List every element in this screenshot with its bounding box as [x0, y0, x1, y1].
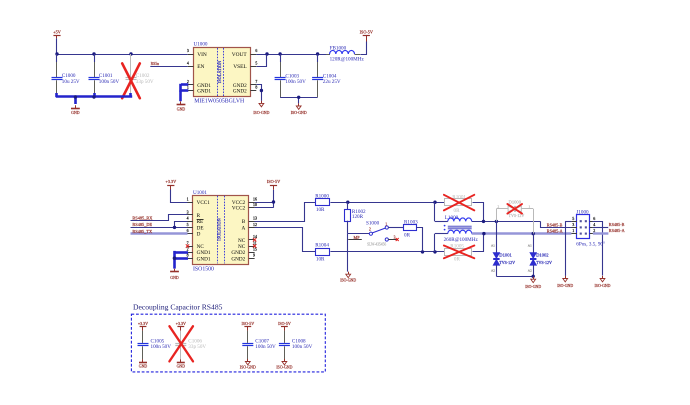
wire RS485_DE [131, 222, 188, 230]
diode D1000 TVS not fitted [496, 199, 533, 233]
U1001 pin 2 stub [187, 248, 193, 253]
svg-text:SLW-435456: SLW-435456 [367, 242, 386, 246]
svg-text:RS5n: RS5n [151, 62, 160, 66]
no-connect X U1001 pin 11 [253, 244, 256, 247]
red X over C1006 [169, 326, 193, 361]
svg-text:0R: 0R [454, 208, 461, 214]
wire RS485_TX highlighted [131, 229, 188, 234]
svg-text:NC: NC [238, 238, 246, 244]
wire U1001 GND1 thick to ground [173, 251, 188, 269]
svg-text:ISO-GND: ISO-GND [240, 365, 256, 369]
svg-text:S1000: S1000 [366, 220, 380, 226]
svg-text:120R@100MHz: 120R@100MHz [330, 57, 365, 63]
svg-text:ISO-GND: ISO-GND [253, 111, 269, 115]
svg-text:10R: 10R [316, 257, 325, 263]
U1001 pin 8 stub [187, 254, 193, 259]
svg-text:GND2: GND2 [231, 256, 245, 262]
svg-text:ISO-GND: ISO-GND [557, 284, 573, 288]
svg-text:4: 4 [187, 61, 189, 65]
svg-text:ISO-GND: ISO-GND [276, 365, 292, 369]
svg-text:5: 5 [255, 61, 257, 65]
svg-text:VIN: VIN [197, 52, 207, 58]
svg-text:2: 2 [498, 205, 500, 209]
svg-text:VOUT: VOUT [232, 52, 248, 58]
svg-text:TVS-12V: TVS-12V [536, 260, 552, 265]
U1000 pin 8 GND2 stub [250, 86, 257, 91]
wire A to R1004 [255, 228, 316, 252]
svg-text:10: 10 [253, 203, 257, 207]
resistor R1004 [315, 242, 329, 262]
diode D1001 TVS [491, 221, 515, 276]
wire C1003 C1004 ground bus [280, 96, 318, 104]
svg-text:GND: GND [177, 364, 186, 368]
U1001 pin 3 stub [187, 210, 193, 214]
wire B line after R1000 [330, 201, 444, 204]
switch S1000 [366, 220, 396, 246]
power ISO-5V top [360, 30, 373, 42]
power +3.3V at C1006 [176, 321, 186, 331]
svg-text:RS485-A: RS485-A [547, 228, 563, 233]
svg-text:3: 3 [394, 235, 396, 239]
power +5V [53, 29, 60, 54]
ground ISO-GND at TVS diodes [525, 277, 541, 289]
svg-text:RS485_RX: RS485_RX [132, 215, 153, 220]
wire R1003 to A line [417, 228, 423, 252]
wire FB1000 to ISO-5V [361, 42, 367, 55]
svg-text:A: A [241, 225, 245, 231]
resistor R1005 not fitted [445, 243, 472, 262]
wire RS485-A right highlighted [593, 228, 625, 233]
svg-text:10R: 10R [316, 207, 325, 213]
power ISO-5V at C1008 [278, 321, 291, 331]
ground ISO-GND at R1002 [340, 272, 356, 283]
wire +5V bus to VIN [55, 52, 187, 55]
svg-text:ISO1500: ISO1500 [193, 267, 214, 273]
diode D1002 TVS [528, 234, 552, 277]
svg-text:A2: A2 [528, 268, 532, 272]
J1000 pin 1 stub [571, 228, 577, 233]
svg-text:260R@100MHz: 260R@100MHz [444, 237, 479, 243]
capacitor C1000 [52, 54, 80, 93]
U1001 pin 9 stub [249, 254, 255, 259]
svg-text:RS485-B: RS485-B [609, 222, 625, 227]
red X over R1005 [444, 246, 474, 259]
capacitor C1007 [242, 331, 276, 360]
op-amp U1000 isolated DC-DC converter [194, 42, 251, 105]
svg-text:D: D [197, 232, 201, 238]
wire J1000 pin 5 to ISO-GND [565, 221, 571, 276]
svg-text:+3.3V: +3.3V [176, 321, 186, 326]
svg-text:120R: 120R [352, 214, 364, 220]
ground ISO-GND under J1000 right [595, 276, 611, 288]
svg-text:U1001: U1001 [193, 190, 207, 196]
power +3.3V at U1001 [165, 179, 176, 190]
U1000 pin 6 VOUT stub [250, 49, 257, 54]
svg-text:4: 4 [593, 222, 595, 227]
red X over C1002 [122, 63, 140, 98]
svg-text:100n 50V: 100n 50V [255, 344, 276, 350]
ground ISO-GND under C1003 C1004 [291, 103, 307, 115]
ground GND at C1005 [139, 359, 148, 368]
resistor R1001 not fitted [445, 194, 472, 214]
wire R1005 right to winding [473, 234, 484, 252]
wire switch to R1003 [388, 227, 403, 229]
svg-text:D1001: D1001 [499, 253, 512, 258]
svg-text:ISO-GND: ISO-GND [340, 279, 356, 283]
svg-text:100n 50V: 100n 50V [285, 79, 306, 85]
svg-text:ISO-GND: ISO-GND [525, 285, 541, 289]
svg-text:3: 3 [187, 210, 189, 214]
svg-text:100n 50V: 100n 50V [292, 344, 313, 350]
svg-text:ISO-5V: ISO-5V [241, 321, 254, 326]
svg-text:RS485_DE: RS485_DE [132, 222, 152, 227]
svg-text:Decoupling Capacitor RS485: Decoupling Capacitor RS485 [133, 303, 223, 312]
svg-text:RE: RE [197, 219, 204, 225]
svg-text:NC: NC [238, 244, 246, 250]
svg-text:A1: A1 [528, 243, 532, 247]
resistor R1000 [315, 193, 329, 213]
svg-text:1: 1 [385, 222, 387, 226]
svg-text:MP: MP [354, 235, 361, 240]
U1000 pin 4 EN stub [187, 61, 194, 66]
U1001 pin 11 stub [249, 241, 257, 246]
U1001 pin 13 stub [249, 217, 257, 222]
svg-text:J1000: J1000 [576, 209, 589, 215]
svg-text:MIE1W0505BGLVH: MIE1W0505BGLVH [194, 98, 245, 104]
capacitor C1004 [312, 54, 341, 97]
svg-text:1: 1 [572, 228, 574, 233]
svg-text:VCC2: VCC2 [232, 206, 246, 212]
red X over D1000 [507, 204, 522, 214]
svg-text:ISOLATION: ISOLATION [217, 61, 222, 83]
svg-text:13: 13 [253, 217, 257, 221]
svg-text:R1003: R1003 [404, 220, 418, 226]
svg-text:1: 1 [187, 197, 189, 201]
ground GND primary [71, 105, 80, 115]
U1001 pin 10 stub [249, 203, 257, 207]
connector J1000 [576, 209, 605, 247]
svg-text:EN: EN [197, 64, 204, 70]
svg-text:D1002: D1002 [536, 253, 549, 258]
red X over R1001 [444, 195, 474, 211]
svg-text:GND: GND [177, 108, 186, 112]
wire RS485_RX [131, 215, 188, 221]
U1000 pin 1 GND1 stub [187, 86, 194, 91]
wire B to L1000 upper winding [435, 202, 448, 221]
wire ISO-5V to VCC2 pins [255, 190, 276, 208]
U1000 pin 5 VSEL stub [250, 61, 257, 66]
svg-text:ISO-5V: ISO-5V [267, 179, 280, 184]
capacitor C1008 [279, 331, 313, 360]
wire GND bus thick [56, 93, 132, 104]
wire B to R1000 [255, 203, 316, 222]
svg-text:D1000: D1000 [509, 199, 522, 204]
svg-text:VSEL: VSEL [233, 64, 246, 70]
svg-text:3: 3 [187, 49, 189, 53]
svg-text:33p 50V: 33p 50V [136, 79, 154, 85]
svg-text:6Pos, 3.5, 90°: 6Pos, 3.5, 90° [576, 241, 605, 248]
U1001 pin 7 stub [187, 241, 193, 246]
svg-text:B: B [242, 219, 246, 225]
svg-text:1: 1 [529, 205, 531, 209]
svg-text:4: 4 [187, 217, 189, 221]
svg-text:TVS-12V: TVS-12V [499, 260, 515, 265]
capacitor C1003 [275, 54, 307, 97]
no-connect X U1001 pin 7 [186, 244, 189, 247]
svg-text:R1000: R1000 [315, 193, 329, 199]
svg-text:FB1000: FB1000 [330, 45, 347, 51]
svg-text:9: 9 [253, 254, 255, 258]
svg-text:15: 15 [253, 248, 257, 252]
svg-text:7: 7 [255, 80, 257, 84]
svg-text:6: 6 [593, 216, 595, 221]
power +3.3V at C1005 [138, 321, 148, 331]
svg-text:ISO-5V: ISO-5V [360, 30, 373, 35]
J1000 pin 5 stub [571, 216, 577, 222]
svg-text:GND: GND [139, 364, 148, 368]
svg-text:GND2: GND2 [233, 88, 247, 94]
wire A line after R1004 [330, 250, 444, 253]
ground ISO-GND at C1008 [276, 359, 292, 370]
svg-text:R: R [197, 213, 201, 219]
svg-text:2: 2 [187, 248, 189, 252]
U1001 pin 14 stub [249, 235, 257, 239]
svg-text:DE: DE [197, 225, 204, 231]
svg-text:33p 50V: 33p 50V [188, 344, 206, 350]
power ISO-5V at C1007 [241, 321, 254, 331]
dashed border decoupling box [131, 314, 325, 372]
svg-text:ISOLATION: ISOLATION [217, 218, 222, 240]
wire RS485-B line to connector [472, 220, 572, 228]
inductor L1000 common mode choke [444, 215, 479, 243]
ground ISO-GND at C1007 [240, 359, 256, 370]
testpoint MP [348, 235, 362, 240]
U1000 pin 3 VIN stub [187, 49, 194, 54]
svg-text:GND: GND [170, 276, 179, 280]
U1001 pin 5 stub [187, 223, 193, 228]
svg-text:A2: A2 [491, 268, 495, 272]
J1000 pin 2 stub [590, 228, 596, 233]
wire +3.3V to VCC1 [171, 190, 188, 203]
svg-text:100n 50V: 100n 50V [151, 344, 172, 350]
svg-text:GND: GND [71, 111, 80, 115]
U1001 pin 15 stub [249, 248, 257, 253]
title Decoupling Capacitor RS485 [133, 303, 223, 312]
wire R1002 to switch and ISO-GND [348, 234, 370, 272]
svg-text:R1004: R1004 [315, 242, 329, 248]
wire RS485-B right [593, 222, 625, 228]
wire switch lower throw no-connect [388, 238, 398, 241]
svg-text:5: 5 [572, 216, 574, 221]
wire U1000 GND1 thick to ground [181, 84, 189, 101]
svg-text:RS485-B: RS485-B [547, 222, 563, 227]
wire VOUT bus [256, 52, 330, 55]
J1000 pin 4 stub [590, 222, 596, 228]
svg-text:+5V: +5V [53, 29, 60, 34]
svg-text:12: 12 [253, 223, 257, 227]
U1000 pin 7 GND2 stub [250, 80, 257, 84]
svg-text:GND2: GND2 [231, 250, 245, 256]
svg-text:16: 16 [253, 197, 257, 201]
resistor R1003 [404, 220, 419, 239]
U1001 pin 1 stub [187, 197, 193, 202]
svg-text:8: 8 [187, 254, 189, 258]
U1001 pin 12 stub [249, 223, 257, 228]
U1001 pin 16 stub [249, 197, 257, 202]
svg-text:ISO-GND: ISO-GND [595, 284, 611, 288]
J1000 pin 6 stub [590, 216, 596, 222]
capacitor C1005 [138, 331, 172, 360]
ground GND at U1001 [170, 269, 179, 280]
wire R1001 right to winding [473, 203, 484, 222]
wire J1000 pin 6 to ISO-GND [593, 222, 603, 276]
U1000 pin 2 GND1 stub [187, 80, 194, 84]
wire A to L1000 lower winding [435, 234, 448, 252]
svg-text:NC: NC [197, 244, 205, 250]
ground GND at C1006 [177, 359, 186, 368]
wire EN net [150, 62, 187, 67]
svg-text:8: 8 [255, 86, 257, 90]
svg-text:22u 25V: 22u 25V [323, 79, 341, 85]
svg-text:1: 1 [187, 86, 189, 90]
capacitor C1001 [89, 54, 120, 93]
J1000 pin 3 stub [571, 222, 577, 228]
wire U1000 GND2 to ISO-GND [257, 85, 264, 101]
svg-text:GND1: GND1 [197, 250, 211, 256]
ferrite bead FB1000 [326, 45, 364, 62]
svg-text:10u 25V: 10u 25V [62, 79, 80, 85]
svg-text:GND1: GND1 [197, 256, 211, 262]
power ISO-5V at U1001 [267, 179, 280, 190]
svg-text:A1: A1 [491, 243, 495, 247]
capacitor C1006 not fitted [175, 331, 206, 360]
ground ISO-GND under J1000 left [557, 276, 573, 288]
svg-text:5: 5 [187, 223, 189, 227]
svg-text:+3.3V: +3.3V [165, 179, 176, 184]
svg-text:ISO-5V: ISO-5V [278, 321, 291, 326]
svg-text:GND1: GND1 [197, 88, 211, 94]
svg-text:0R: 0R [454, 256, 461, 262]
ground ISO-GND under U1000 [253, 101, 269, 115]
svg-text:ISO-GND: ISO-GND [291, 111, 307, 115]
svg-text:RS485_TX: RS485_TX [132, 229, 153, 234]
svg-text:100n 50V: 100n 50V [99, 79, 120, 85]
wire VSEL to VOUT [257, 55, 267, 67]
no-connect X U1001 pin 14 [253, 238, 256, 241]
ground GND at U1000 [177, 101, 186, 111]
U1001 pin 6 stub [187, 229, 193, 234]
svg-text:RS485-A: RS485-A [609, 228, 625, 233]
svg-text:VCC1: VCC1 [197, 200, 211, 206]
svg-text:6: 6 [255, 49, 257, 53]
svg-text:+3.3V: +3.3V [138, 321, 148, 326]
resistor R1002 termination [345, 202, 367, 234]
svg-text:U1000: U1000 [194, 42, 208, 48]
svg-text:2: 2 [369, 228, 371, 232]
wire RS485-A line highlighted to connector [472, 228, 572, 235]
svg-text:3: 3 [572, 222, 574, 227]
U1001 pin 4 stub [187, 217, 193, 222]
svg-text:0R: 0R [404, 233, 411, 239]
capacitor C1002 not fitted [126, 54, 154, 93]
wire TVS diodes to ISO-GND [496, 275, 535, 278]
op-amp U1001 ISO1500 RS-485 transceiver [193, 190, 249, 273]
